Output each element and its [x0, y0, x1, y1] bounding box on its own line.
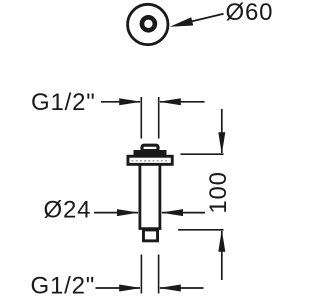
- svg-text:G1/2": G1/2": [31, 273, 96, 300]
- svg-text:Ø24: Ø24: [44, 197, 92, 224]
- svg-text:G1/2": G1/2": [31, 89, 96, 116]
- svg-text:Ø60: Ø60: [226, 0, 274, 26]
- svg-text:100: 100: [205, 171, 232, 213]
